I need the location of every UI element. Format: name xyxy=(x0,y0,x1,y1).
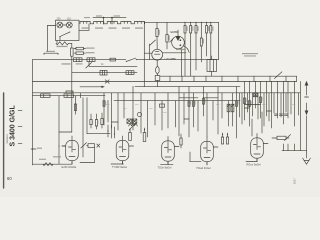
IF rect pair a xyxy=(129,133,132,141)
wire vertical x198 xyxy=(197,101,199,131)
capacitor C901 xyxy=(76,52,84,55)
terminal label xyxy=(37,148,42,149)
wire V1 tap link xyxy=(62,145,66,147)
wire vertical x281 xyxy=(280,93,282,117)
coil chain labels xyxy=(82,27,90,28)
comb smears xyxy=(106,103,110,106)
wire vertical x291 xyxy=(290,93,292,114)
wire to box xyxy=(156,74,158,75)
label ladder 3 xyxy=(198,26,199,31)
wire earth continuation xyxy=(306,116,308,151)
crystal comb 31 xyxy=(254,93,258,97)
coil chain L1-L5 xyxy=(80,22,90,24)
small rect x162 xyxy=(160,104,165,107)
label ladder 6 xyxy=(212,26,213,31)
wire x72 upper xyxy=(71,60,73,73)
wire vertical x274 xyxy=(273,93,275,113)
wire eye top xyxy=(177,30,179,36)
wire drop x196 xyxy=(195,22,197,25)
resistor on x75.5 xyxy=(74,104,76,111)
adjust arrow x89 xyxy=(86,63,92,69)
wire vertical x155 xyxy=(154,93,156,125)
osc rect row 2 xyxy=(95,120,97,127)
wire vertical x255.5 xyxy=(255,82,257,109)
capacitor C-a xyxy=(41,94,51,98)
eye adjust arrow xyxy=(170,39,174,43)
wire trimmer down xyxy=(149,44,151,60)
wire vertical x124 xyxy=(123,93,125,118)
wire vertical x283.5 xyxy=(283,82,285,125)
coil chain top labels xyxy=(84,17,90,18)
wire V5 area a xyxy=(251,119,253,136)
label right of dot xyxy=(114,15,121,16)
wire drop x167 xyxy=(166,22,168,34)
resistor comb 0 xyxy=(103,101,105,107)
bus y86.7 mid xyxy=(135,86,240,88)
magic eye dots xyxy=(180,39,182,41)
terminal tick xyxy=(31,148,36,150)
label left of dot xyxy=(96,15,102,16)
resistor comb 14 xyxy=(188,101,190,107)
IF rect pair b xyxy=(143,133,146,142)
adjust arrow osc xyxy=(81,143,87,148)
wire vertical x298.5 xyxy=(298,93,300,115)
osc rect row 1 xyxy=(90,120,92,125)
wire x89 drop xyxy=(88,62,90,67)
wire vertical x218 xyxy=(217,87,219,134)
label R12 xyxy=(169,35,170,40)
label ladder 2 xyxy=(192,26,193,31)
wire vertical x232.5 xyxy=(232,93,234,126)
page edge rule xyxy=(3,93,5,188)
resistor above V5 xyxy=(277,136,286,139)
wire drop x190.7 xyxy=(190,22,192,25)
filter box X2 xyxy=(132,119,136,123)
wire x72 long xyxy=(71,73,73,132)
wire vertical x213 xyxy=(212,101,214,120)
resistor comb 17 xyxy=(203,99,205,105)
wire vertical x236.5 xyxy=(236,87,238,138)
adjust arrow right xyxy=(275,72,283,79)
filter box X1 xyxy=(127,119,131,123)
wire x87 long xyxy=(86,98,88,134)
wire vertical x111.5 xyxy=(111,93,113,128)
resistor R11 xyxy=(156,29,158,37)
resistor comb 29 xyxy=(249,101,251,107)
label under eye xyxy=(176,49,185,50)
wire vertical x260.5 xyxy=(260,82,262,119)
comb U link 4 xyxy=(245,107,250,109)
wire x94.5 xyxy=(94,148,96,163)
wire resistor to ballast xyxy=(69,42,72,44)
tube V4 bottom wire xyxy=(206,162,208,165)
IF pair dots xyxy=(129,129,130,130)
resistor ladder 4 xyxy=(200,38,202,46)
wire V5 area b xyxy=(261,112,263,133)
ballast resistor xyxy=(71,48,74,56)
wire vertical x179 xyxy=(178,87,180,136)
tube V2 xyxy=(116,140,129,160)
label under bus b xyxy=(76,63,83,64)
label R11 xyxy=(159,30,160,35)
upper heater line xyxy=(93,17,126,19)
junction cap link 1 xyxy=(103,18,105,24)
wire tube V6 down xyxy=(156,60,158,66)
wire eye down xyxy=(181,49,183,77)
wire vertical x133 xyxy=(132,87,134,130)
wire vertical x175.5 xyxy=(175,101,177,127)
comb U link 5 xyxy=(267,110,272,112)
bus y72.7 xyxy=(72,72,137,74)
wire vertical x239.5 xyxy=(239,93,241,117)
switch S1 xyxy=(60,32,70,36)
short bus c xyxy=(245,104,261,106)
tube V1 bottom stub xyxy=(71,161,73,165)
wire vertical x244.5 xyxy=(244,82,246,121)
IF can T1 xyxy=(207,60,217,72)
tube V3 xyxy=(162,141,175,161)
wire right drops xyxy=(283,144,285,151)
osc bus y133.6 xyxy=(87,133,110,135)
wire vertical x294.5 xyxy=(294,82,296,127)
label ladder 5 xyxy=(208,26,209,31)
resistor ladder 1 xyxy=(184,26,186,34)
wire x83 long xyxy=(82,98,84,157)
osc coil T2 xyxy=(129,125,137,126)
wire vertical x104 xyxy=(103,93,105,125)
capacitor C-b xyxy=(64,94,74,98)
wire drop x185 xyxy=(184,22,186,25)
wire vertical x271.5 xyxy=(271,82,273,129)
osc rect row 3 xyxy=(101,119,103,125)
wire y132 link xyxy=(59,131,72,133)
wire drop x206.5 xyxy=(206,22,208,25)
resistor comb 33 xyxy=(260,97,262,103)
wire vertical x286 xyxy=(285,93,287,112)
label C901 xyxy=(86,52,95,53)
resistor ladder 2 xyxy=(190,26,192,34)
label ladder 4 xyxy=(203,39,204,44)
left rail xyxy=(32,60,34,165)
tube V5 xyxy=(251,138,264,158)
wire vertical x258 xyxy=(257,93,259,119)
wire vertical x147.5 xyxy=(147,101,149,137)
choke on bus xyxy=(87,58,95,62)
wire x80.5 xyxy=(80,93,82,98)
margin tick 3 xyxy=(18,142,22,144)
bus ties xyxy=(169,76,171,81)
bracket label Netz xyxy=(43,53,45,54)
wire drop x210.8 xyxy=(210,22,212,25)
electrolytic comb 22 xyxy=(227,104,230,112)
label ladder 1 xyxy=(187,26,188,31)
wire to bus xyxy=(156,81,158,87)
tube V4 xyxy=(201,141,214,161)
wire vertical x222 xyxy=(221,93,223,118)
wire vertical x207 xyxy=(206,93,208,137)
antenna break tick xyxy=(305,96,309,98)
tube V1 xyxy=(66,140,79,160)
margin tick 2 xyxy=(18,126,22,128)
wire vertical x189 xyxy=(188,87,190,137)
wire tap right xyxy=(163,52,186,54)
short bus a xyxy=(179,97,198,99)
component box 940 xyxy=(155,76,160,81)
cap box B xyxy=(126,71,134,75)
wire right rail long xyxy=(300,82,302,151)
resistor ladder 5 xyxy=(206,26,208,34)
wire vertical x141 xyxy=(140,93,142,133)
wire x59 xyxy=(58,96,60,165)
small circle node xyxy=(137,112,141,116)
magic eye target xyxy=(175,36,180,41)
resistor ladder 3 xyxy=(195,26,197,34)
ground arrow xyxy=(303,158,307,164)
tube V6 xyxy=(152,49,163,60)
resistor ladder 6 xyxy=(210,26,212,34)
label Bandbreite xyxy=(242,53,258,54)
label 0,1A xyxy=(86,48,95,49)
arrow down symbol xyxy=(306,103,308,112)
wire right corner xyxy=(296,76,298,81)
label bottom resistor xyxy=(39,159,46,160)
bus mains xyxy=(33,59,126,61)
bus y81.5 xyxy=(33,81,297,83)
wire can bottom xyxy=(211,72,213,77)
wire vertical x247.5 xyxy=(247,93,249,112)
cap on bus xyxy=(110,58,116,61)
tube V3 bottom wire xyxy=(167,162,169,165)
wire vertical x108 xyxy=(107,101,109,122)
wire vertical x118 xyxy=(117,93,119,130)
label under bus a xyxy=(62,63,71,64)
cross mark xyxy=(105,80,109,84)
junction cap link 2 xyxy=(111,18,113,24)
wire vertical x277.5 xyxy=(277,82,279,119)
lamp La2 xyxy=(66,22,72,28)
wire vertical x242 xyxy=(241,93,243,124)
adjust arrow V5 xyxy=(285,135,291,141)
fuse Si1 xyxy=(76,47,84,50)
wire drop x157 xyxy=(156,22,158,28)
osc mixer rect xyxy=(88,144,95,148)
osc labels xyxy=(91,121,94,124)
comb U link 1 xyxy=(112,121,119,123)
magic eye EM80 envelope xyxy=(172,36,185,49)
wire vertical x266.5 xyxy=(266,82,268,117)
bus y96.6 left xyxy=(33,95,106,97)
comb U link 2 xyxy=(184,118,189,120)
box on bus A xyxy=(74,58,83,62)
wire vertical x168 xyxy=(167,93,169,128)
cluster above V2 xyxy=(107,125,109,137)
bottom bus y165 xyxy=(33,163,73,165)
wire selector down xyxy=(56,41,58,44)
wire lamp link xyxy=(63,24,67,26)
wire vertical x252.5 xyxy=(252,93,254,116)
osc bus y162.5 xyxy=(80,162,95,164)
bus y76.2 xyxy=(160,75,297,77)
wire chain end down xyxy=(143,22,145,86)
osc cross xyxy=(97,144,100,147)
wire top bus corner down xyxy=(218,22,220,59)
lamp La1 xyxy=(57,22,63,28)
wire vertical x184 xyxy=(183,93,185,124)
cluster T3-T4 xyxy=(180,138,182,145)
wire vertical x228.5 xyxy=(228,101,230,126)
wire box left hook xyxy=(48,25,56,27)
fuse oval xyxy=(156,66,159,74)
margin tick 1 xyxy=(18,110,22,112)
wire vertical x193.5 xyxy=(193,93,195,127)
resistor bottom xyxy=(43,163,53,166)
wire can top xyxy=(211,56,213,60)
wire vertical x288 xyxy=(287,82,289,119)
bus y66.3 xyxy=(89,65,137,67)
wire vertical x162 xyxy=(161,101,163,130)
wire box to riser xyxy=(79,29,89,31)
bus y92.8 xyxy=(33,92,301,94)
wire vertical x203.5 xyxy=(203,87,205,116)
tube V2 bottom wire xyxy=(122,161,124,164)
electrolytic comb 23 xyxy=(231,104,234,112)
resistor comb 27 xyxy=(244,98,246,104)
wire ground drop xyxy=(306,151,308,158)
tube V5 bottom wire xyxy=(256,159,258,162)
resistor comb 15 xyxy=(193,101,195,107)
label Urdox xyxy=(57,46,68,47)
bus arm arrow xyxy=(80,86,102,88)
caps row right xyxy=(274,113,277,115)
antenna arrow up xyxy=(306,85,308,96)
wire vertical x249.5 xyxy=(249,82,251,127)
wire ballast down xyxy=(71,56,73,59)
wire top bus right xyxy=(143,22,145,24)
wire drop x201.3 xyxy=(200,22,202,38)
short bus b xyxy=(203,97,218,99)
wire stub left xyxy=(144,52,152,54)
resistor comb 24 xyxy=(236,101,238,107)
resistor R-Urdox xyxy=(56,42,69,45)
cap box A xyxy=(100,70,107,75)
bus y150.7 right xyxy=(282,150,307,152)
bus y100.7 xyxy=(114,100,240,102)
voltage selector box xyxy=(56,20,80,40)
trimmer arrow xyxy=(150,40,156,46)
wire x75.5 xyxy=(75,96,77,115)
switch on bus xyxy=(126,58,136,62)
wire vertical x269 xyxy=(268,93,270,121)
cluster right of T4 xyxy=(221,137,223,144)
resistor R12 xyxy=(166,35,168,43)
wire vertical x264 xyxy=(263,93,265,126)
magic eye tail xyxy=(184,46,190,53)
